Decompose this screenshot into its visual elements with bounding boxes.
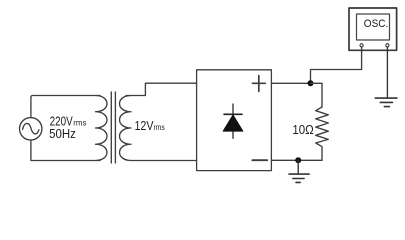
minus terminal mark [252, 159, 267, 161]
ground load stem [297, 160, 299, 173]
wire secondary bottom to bridge input [131, 160, 197, 162]
wire bridge minus output to resistor bottom [271, 159, 322, 161]
oscilloscope probe terminal right [386, 44, 389, 47]
diode D1 axis line [232, 104, 234, 138]
transformer T1 secondary winding [120, 96, 131, 161]
wire bottom-left from V1 to primary [31, 140, 100, 161]
wire junction up to oscilloscope probe [311, 47, 362, 83]
node junction dot minus rail [295, 157, 301, 163]
resistor R1 zigzag [316, 107, 329, 160]
wire junction to resistor top [311, 83, 323, 107]
bridge rectifier U1 box [197, 70, 272, 171]
plus terminal mark [252, 76, 265, 92]
diode D1 triangle [223, 115, 243, 131]
transformer T1 core [111, 92, 115, 163]
transformer T1 primary winding [96, 96, 107, 161]
ground scope bars [375, 98, 397, 107]
svg-text:OSC.: OSC. [364, 18, 388, 31]
ac source V1 [20, 118, 42, 140]
wire bridge plus output [271, 82, 310, 84]
oscilloscope probe terminal left [360, 44, 363, 47]
svg-text:12Vrms: 12Vrms [135, 118, 165, 133]
value label 220Vrms [50, 115, 87, 129]
wire top-left from V1 to primary [31, 96, 100, 118]
ground load bars [289, 174, 309, 182]
svg-text:50Hz: 50Hz [49, 126, 76, 141]
node junction dot plus rail [308, 80, 314, 86]
oscilloscope screen [357, 14, 390, 40]
wire secondary top to bridge input [126, 83, 197, 95]
wire scope right terminal to ground [386, 47, 388, 98]
oscilloscope OSC body [349, 8, 397, 50]
diode D1 cathode bar [224, 113, 242, 115]
svg-text:10Ω: 10Ω [292, 123, 313, 138]
